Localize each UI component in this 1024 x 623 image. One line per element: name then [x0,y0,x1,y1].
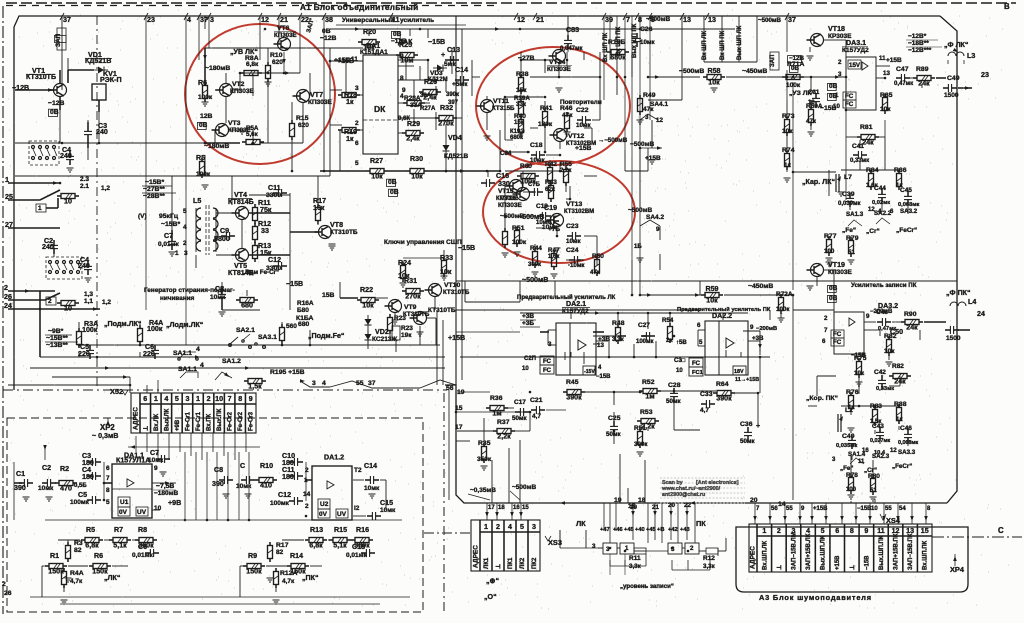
svg-text:14: 14 [303,491,311,498]
svg-text:1к: 1к [346,98,354,106]
svg-text:SA2.1: SA2.1 [236,327,255,334]
svg-text:390: 390 [212,480,224,488]
svg-text:R90: R90 [904,311,917,318]
svg-text:−12В: −12В [48,100,65,107]
svg-text:6,8к: 6,8к [309,542,323,550]
svg-text:+45: +45 [646,527,656,533]
svg-text:2: 2 [496,523,500,531]
svg-text:13: 13 [683,16,691,24]
svg-text:R31: R31 [404,277,417,285]
svg-text:180: 180 [282,473,294,481]
svg-text:Вых.ПК: Вых.ПК [217,408,223,431]
svg-text:390к: 390к [446,92,459,98]
svg-text:R53: R53 [640,409,653,416]
svg-text:SА2.3: SА2.3 [872,453,890,460]
svg-text:„ЛК“: „ЛК“ [104,574,121,582]
svg-text:VТ3: VТ3 [228,120,241,127]
svg-text:10: 10 [871,506,878,512]
svg-text:+43: +43 [680,527,690,533]
svg-text:R45: R45 [566,379,579,386]
svg-text:2: 2 [2,581,6,588]
svg-text:~500мВ: ~500мВ [522,276,548,284]
svg-text:С26: С26 [640,26,653,33]
svg-text:+15Б: +15Б [334,57,351,64]
svg-text:„FеСr“: „FеСr“ [896,227,917,234]
svg-text:−180мВ: −180мВ [154,490,178,497]
svg-text:С6: С6 [138,543,147,551]
svg-text:С12: С12 [278,491,291,499]
svg-text:С13: С13 [447,46,460,54]
svg-text:3: 3 [592,543,596,550]
svg-text:330: 330 [498,180,510,188]
svg-text:10: 10 [64,305,72,313]
svg-text:R58: R58 [707,67,720,75]
svg-text:2.3: 2.3 [80,176,89,183]
svg-text:−15В: −15В [596,374,611,380]
svg-text:~500мВ: ~500мВ [758,17,782,24]
svg-text:8: 8 [238,395,242,403]
svg-text:VТ11: VТ11 [493,98,509,105]
svg-text:КП303Е: КП303Е [274,32,297,39]
svg-text:13: 13 [708,16,716,24]
svg-text:0,6К: 0,6К [398,116,410,122]
svg-text:0В: 0В [829,295,838,302]
svg-text:−500мВ: −500мВ [679,68,704,75]
svg-text:Вх.ШП.ПК: Вх.ШП.ПК [923,540,929,570]
svg-text:L4: L4 [968,298,976,306]
svg-text:100: 100 [846,487,857,493]
svg-text:5: 5 [175,395,179,403]
svg-text:1к: 1к [346,135,354,143]
svg-text:7: 7 [106,475,110,482]
svg-text:2: 2 [4,284,8,292]
svg-text:1м: 1м [492,410,501,418]
svg-text:Fе-Сr1: Fе-Сr1 [185,411,191,431]
svg-text:+3Б: +3Б [522,320,534,327]
svg-text:17: 17 [488,505,495,511]
svg-text:82: 82 [276,549,284,556]
svg-text:~450мВ: ~450мВ [748,283,773,290]
svg-text:VD2: VD2 [375,328,389,336]
svg-text:R5: R5 [86,526,95,534]
svg-text:VТ2: VТ2 [232,81,245,88]
svg-text:R2: R2 [60,465,69,473]
svg-text:VТ7: VТ7 [310,91,323,99]
svg-text:ХS4: ХS4 [886,516,901,525]
svg-text:10к: 10к [706,297,718,305]
svg-text:1,1: 1,1 [84,298,93,305]
svg-text:АДРЕС: АДРЕС [750,546,757,569]
svg-text:−15В: −15В [428,38,445,46]
svg-text:R37: R37 [497,419,510,426]
svg-text:С43: С43 [872,423,884,430]
svg-text:10мк: 10мк [364,485,380,492]
svg-text:20: 20 [668,502,675,509]
svg-text:4,7: 4,7 [700,407,709,414]
svg-text:100к: 100к [776,306,790,313]
svg-text:−12В: −12В [12,84,29,92]
svg-text:КП303Е: КП303Е [498,202,522,209]
svg-text:~13В**: ~13В** [46,342,68,349]
svg-text:„FеСr“: „FеСr“ [892,463,912,470]
svg-text:82: 82 [74,547,82,554]
svg-text:R46: R46 [560,105,573,112]
svg-text:1,3: 1,3 [84,291,93,298]
svg-text:100мк: 100мк [636,339,653,345]
svg-text:С47: С47 [896,66,909,73]
svg-text:С18: С18 [530,142,543,149]
svg-text:Вых.ЛК: Вых.ЛК [164,408,170,431]
svg-text:10к: 10к [854,370,865,377]
svg-text:А3 Блок шумоподавителя: А3 Блок шумоподавителя [759,593,872,602]
svg-text:ant2900@chat.ru: ant2900@chat.ru [662,492,705,498]
svg-text:R10: R10 [270,52,283,59]
svg-text:24к: 24к [906,324,918,332]
svg-text:4,7к: 4,7к [282,578,295,585]
svg-text:100мк: 100мк [270,500,290,507]
svg-text:КТ310ТБ: КТ310ТБ [330,229,358,236]
svg-text:„Ф ПК“: „Ф ПК“ [946,289,971,297]
svg-text:55: 55 [786,506,793,512]
svg-text:SA1.2: SA1.2 [222,358,241,365]
svg-text:680: 680 [241,302,253,310]
svg-text:А1 Блок объединительный: А1 Блок объединительный [300,2,418,12]
svg-text:+47: +47 [600,527,610,533]
svg-text:7: 7 [626,16,630,24]
svg-text:Вых ШП ЛК: Вых ШП ЛК [737,25,743,60]
svg-text:50мк: 50мк [740,438,755,445]
svg-text:ПК: ПК [696,519,706,528]
svg-text:С18: С18 [352,543,365,551]
svg-text:UV: UV [337,511,347,518]
svg-text:3,3к: 3,3к [612,336,625,343]
svg-text:R30: R30 [410,155,423,163]
svg-text:9: 9 [402,87,406,94]
svg-text:10: 10 [64,198,72,206]
svg-text:6,8к: 6,8к [85,542,99,550]
svg-text:0В: 0В [393,31,402,38]
svg-text:Вх ШП ЛК: Вх ШП ЛК [603,33,609,62]
svg-text:КС213Ж: КС213Ж [372,336,397,343]
svg-text:R23: R23 [394,315,406,322]
svg-text:КП303Е: КП303Е [230,88,254,95]
svg-text:1м: 1м [645,393,654,401]
svg-text:„Кар. ЛК“: „Кар. ЛК“ [802,178,835,186]
svg-text:51: 51 [870,488,877,494]
svg-text:37: 37 [63,16,71,24]
svg-text:DА3.1: DА3.1 [846,39,866,47]
svg-text:10к: 10к [411,173,423,181]
svg-text:ЗАП: ЗАП [55,33,62,47]
svg-text:0В: 0В [390,189,399,196]
svg-text:5,6к: 5,6к [246,131,259,138]
svg-text:„уровень записи“: „уровень записи“ [620,583,674,590]
svg-text:9: 9 [656,226,660,233]
svg-text:2: 2 [305,503,309,510]
svg-text:U1: U1 [120,499,129,506]
svg-text:+: + [441,51,445,59]
svg-text:С49: С49 [947,75,960,82]
svg-text:SА2.2: SА2.2 [874,210,892,217]
svg-text:4: 4 [508,523,512,531]
svg-text:FС: FС [833,339,842,346]
svg-text:„Fе“: „Fе“ [842,227,856,234]
svg-text:0,33мк: 0,33мк [876,386,894,392]
svg-text:4: 4 [187,16,191,24]
svg-text:620: 620 [298,122,309,129]
svg-text:R27А: R27А [420,106,436,112]
svg-text:+9В: +9В [175,419,181,431]
svg-text:6: 6 [355,140,359,147]
svg-text:ПК1: ПК1 [508,557,514,569]
svg-text:R11: R11 [629,555,641,562]
svg-text:VТ6: VТ6 [277,25,290,32]
svg-text:КП303Е: КП303Е [496,196,518,202]
svg-text:2: 2 [355,120,359,127]
svg-text:1: 1 [175,250,179,257]
svg-text:6,8к: 6,8к [246,61,259,68]
svg-text:Вх.ПК: Вх.ПК [207,413,213,431]
svg-text:R14: R14 [290,552,303,560]
svg-text:10мк: 10мк [380,507,396,514]
svg-text:⋅10мк: ⋅10мк [568,262,585,269]
svg-text:1,2: 1,2 [102,299,111,306]
svg-text:⊥: ⊥ [776,565,783,570]
svg-text:Fе-Сr2: Fе-Сr2 [228,411,234,431]
svg-text:11: 11 [877,527,885,535]
svg-text:С15: С15 [380,499,393,507]
svg-text:−15В: −15В [864,555,870,570]
svg-text:100к: 100к [198,94,213,101]
svg-text:9: 9 [154,465,158,472]
svg-text:−15В: −15В [458,244,475,252]
svg-text:L5: L5 [193,197,201,205]
svg-text:21: 21 [652,504,659,511]
svg-text:+15В: +15В [645,155,661,162]
svg-text:С17: С17 [514,399,526,406]
svg-text:270к: 270к [405,293,421,301]
svg-text:ХР4: ХР4 [950,565,965,574]
svg-text:95кГц: 95кГц [159,213,179,220]
svg-text:19: 19 [614,497,622,504]
svg-text:2к: 2к [666,337,673,344]
svg-text:R25: R25 [399,41,412,49]
svg-text:+15В: +15В [835,555,841,570]
svg-text:1,5к: 1,5к [248,383,262,391]
svg-text:1Б: 1Б [634,244,642,250]
svg-text:1500: 1500 [944,92,959,99]
svg-text:3: 3 [185,395,189,403]
svg-text:1: 1 [484,523,488,531]
svg-text:~15В*: ~15В* [145,179,164,186]
svg-text:38: 38 [325,16,333,24]
svg-text:U2: U2 [320,501,329,508]
svg-text:С24: С24 [566,247,579,254]
svg-text:⊥: ⊥ [849,565,856,570]
svg-text:~500мВ: ~500мВ [646,16,670,23]
svg-text:300к: 300к [528,262,541,268]
svg-text:100к: 100к [147,325,163,333]
svg-text:2: 2 [48,298,52,305]
svg-text:С36: С36 [740,421,753,428]
svg-text:DК: DК [374,104,386,114]
svg-text:15к: 15к [516,87,527,94]
svg-text:КТ315Б: КТ315Б [492,105,515,112]
svg-text:4: 4 [164,395,168,403]
svg-text:5: 5 [106,499,110,506]
svg-text:~ 0,3мВ: ~ 0,3мВ [92,432,118,440]
svg-text:„Подм.ЛК“: „Подм.ЛК“ [104,320,142,328]
svg-text:1: 1 [154,395,158,403]
svg-text:33А: 33А [420,93,432,99]
svg-text:−500мВ: −500мВ [630,141,654,148]
svg-text:4: 4 [200,362,204,369]
svg-text:Х52: Х52 [110,387,123,396]
svg-text:С27: С27 [638,322,650,329]
svg-text:10к: 10к [880,106,891,113]
svg-text:5: 5 [183,208,187,215]
svg-text:R20: R20 [363,28,376,36]
svg-text:SA1.1: SA1.1 [173,350,192,357]
svg-text:20: 20 [750,497,758,504]
svg-text:2: 2 [838,59,842,66]
svg-text:1к: 1к [896,416,903,423]
svg-text:37: 37 [788,16,796,24]
svg-text:56: 56 [446,385,454,392]
svg-text:24к: 24к [862,139,874,147]
svg-text:L2: L2 [845,407,853,414]
svg-text:5,1к: 5,1к [113,542,127,550]
svg-text:10к: 10к [363,44,375,52]
svg-text:11: 11 [858,459,865,465]
svg-text:15V: 15V [849,62,861,69]
svg-text:1500: 1500 [946,335,961,342]
svg-text:С3□: С3□ [674,358,686,364]
svg-text:Вх ШП ЛК: Вх ШП ЛК [702,31,708,60]
svg-text:R15: R15 [334,526,347,534]
svg-text:100к: 100к [82,326,98,334]
svg-text:R64: R64 [716,381,729,388]
svg-text:R15: R15 [296,115,309,122]
svg-text:R23: R23 [401,325,413,332]
svg-text:16: 16 [513,505,520,511]
svg-text:240: 240 [96,128,108,136]
svg-text:R82: R82 [892,363,904,370]
svg-text:R89: R89 [916,66,929,73]
svg-text:11→+15В: 11→+15В [735,377,759,383]
svg-text:4,7: 4,7 [532,413,541,420]
svg-text:8: 8 [850,527,854,535]
svg-text:ЗАП+15В.ЛК: ЗАП+15В.ЛК [806,533,812,570]
svg-text:+40: +40 [635,527,645,533]
svg-text:6: 6 [822,338,826,345]
svg-text:~15В*: ~15В* [161,221,180,228]
svg-text:397: 397 [448,100,459,106]
svg-text:0В: 0В [829,285,838,292]
svg-text:410: 410 [260,482,272,490]
svg-text:100к: 100к [196,171,211,178]
svg-text:VT8: VT8 [330,221,343,229]
svg-text:+15В: +15В [886,57,902,64]
svg-text:6: 6 [697,322,701,329]
svg-text:Вых.ШП.ПК: Вых.ШП.ПК [879,535,885,570]
svg-text:R71А: R71А [787,61,804,68]
svg-text:L7: L7 [844,174,852,181]
svg-text:23: 23 [147,16,155,24]
svg-text:R195 +15В: R195 +15В [270,369,305,376]
svg-text:R27: R27 [370,157,383,165]
svg-text:SА3.2: SА3.2 [900,208,918,215]
svg-text:1: 1 [762,527,766,535]
svg-text:10мк: 10мк [38,485,54,492]
svg-text:3: 3 [210,16,214,24]
svg-text:3: 3 [548,341,552,348]
svg-text:−18В**: −18В** [908,40,929,47]
svg-text:+5мк: +5мк [452,81,468,88]
svg-text:0В: 0В [50,109,59,116]
svg-text:РЭК-П: РЭК-П [100,76,122,84]
svg-text:12: 12 [656,117,663,124]
svg-text:1: 1 [38,205,42,212]
svg-text:+15В: +15В [448,334,465,342]
svg-text:3: 3 [312,380,316,387]
svg-text:С8: С8 [214,466,223,474]
svg-text:КТ3102ВМ: КТ3102ВМ [564,209,594,215]
svg-text:26: 26 [4,590,12,597]
svg-text:С45: С45 [900,187,912,194]
svg-text:8: 8 [400,75,404,82]
svg-text:R49: R49 [643,92,656,99]
svg-text:13: 13 [597,342,604,349]
svg-text:2.1: 2.1 [80,183,89,190]
svg-text:+45: +45 [624,527,634,533]
svg-text:100к: 100к [512,239,527,246]
svg-text:ЗАП−15В.ПК: ЗАП−15В.ПК [908,533,914,570]
svg-text:0,02мк: 0,02мк [872,200,890,206]
svg-text:VТ10: VТ10 [444,282,460,289]
svg-text:Вых.ШП.ЛК: Вых.ШП.ЛК [821,535,827,570]
svg-text:9: 9 [750,324,754,331]
svg-text:Вх ШП ПК: Вх ШП ПК [720,30,726,60]
svg-text:С1: С1 [16,470,25,478]
svg-text:+3В: +3В [522,313,534,320]
svg-text:5: 5 [821,527,825,535]
svg-text:1,6к: 1,6к [548,254,559,260]
svg-text:9: 9 [249,395,253,403]
svg-text:С14: С14 [364,462,377,470]
svg-text:10к: 10к [708,79,720,87]
svg-text:Б80: Б80 [297,307,309,314]
svg-text:21: 21 [280,16,288,24]
svg-text:10: 10 [522,366,529,372]
svg-text:FС: FС [543,368,552,374]
svg-text:6: 6 [106,465,110,472]
svg-text:R12: R12 [703,555,715,562]
svg-text:С: С [998,526,1004,535]
svg-text:180к: 180к [538,121,553,128]
svg-text:18V: 18V [734,369,744,375]
svg-text:VD4: VD4 [448,134,462,142]
svg-text:2: 2 [777,527,781,535]
svg-text:R8: R8 [138,526,147,534]
svg-text:2: 2 [207,395,211,403]
svg-text:10: 10 [215,395,223,403]
svg-text:ЛК2: ЛК2 [520,557,526,569]
svg-text:С42: С42 [874,369,886,376]
svg-text:2: 2 [690,545,694,552]
svg-text:С14: С14 [455,66,468,74]
svg-text:(V): (V) [138,213,147,220]
